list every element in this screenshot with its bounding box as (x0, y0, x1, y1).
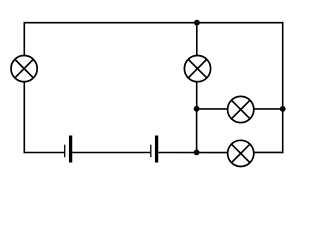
lamp L1 (11, 56, 37, 82)
wire bottom right segment (lamp L4 to right corner) (254, 151, 283, 153)
wire left vertical lower (lamp L1 to bottom corner) (23, 82, 25, 154)
node junction dot middle (lamp L3 branch) (194, 106, 200, 112)
wire bottom left segment (corner to battery B1) (24, 152, 65, 154)
wire top horizontal from left corner to right corner (24, 22, 284, 24)
lamp L3 (228, 96, 254, 122)
wire middle vertical (lamp L2 to middle node) (196, 82, 198, 109)
node junction dot right (lamp L3 to right vertical) (280, 106, 286, 112)
wire right vertical (top corner through node down to bottom corner) (282, 22, 284, 153)
lamp L2 (184, 56, 210, 82)
wire middle branch (middle node to lamp L3) (197, 108, 228, 110)
battery B1 (65, 136, 71, 163)
wire middle vertical lower (middle node to bottom node) (196, 109, 198, 153)
lamp L4 (228, 140, 254, 166)
wire middle vertical upper (top node to lamp L2) (196, 23, 198, 56)
battery B2 (151, 136, 157, 163)
wire bottom from battery B2 to lamp L4 (158, 152, 227, 154)
node junction dot bottom (middle vertical to bottom wire) (194, 150, 200, 156)
wire bottom between batteries (72, 152, 150, 154)
node junction dot top (middle branch to top wire) (194, 20, 200, 26)
wire left vertical upper (corner to lamp L1) (23, 22, 25, 56)
wire from lamp L3 to right node (254, 108, 283, 110)
